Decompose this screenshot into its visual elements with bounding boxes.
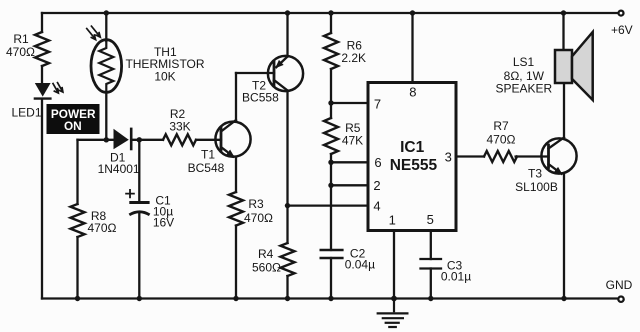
svg-text:SPEAKER: SPEAKER xyxy=(495,81,552,95)
svg-text:33K: 33K xyxy=(169,120,190,134)
svg-text:7: 7 xyxy=(374,97,381,112)
svg-text:3: 3 xyxy=(445,149,452,164)
svg-text:470Ω: 470Ω xyxy=(6,45,35,59)
svg-text:0.01µ: 0.01µ xyxy=(441,270,471,284)
svg-text:R1: R1 xyxy=(13,32,29,46)
svg-text:6: 6 xyxy=(374,155,381,170)
svg-text:NE555: NE555 xyxy=(390,157,438,174)
svg-text:T3: T3 xyxy=(528,167,542,181)
svg-text:BC548: BC548 xyxy=(188,161,225,175)
svg-text:1: 1 xyxy=(389,213,396,228)
svg-text:470Ω: 470Ω xyxy=(88,221,117,235)
svg-text:+6V: +6V xyxy=(611,23,633,37)
svg-text:470Ω: 470Ω xyxy=(244,211,273,225)
svg-text:GND: GND xyxy=(606,278,633,292)
svg-text:1N4001: 1N4001 xyxy=(98,162,140,176)
svg-text:5: 5 xyxy=(427,212,434,227)
svg-text:560Ω: 560Ω xyxy=(252,261,281,275)
svg-text:SL100B: SL100B xyxy=(515,180,558,194)
svg-text:4: 4 xyxy=(373,199,380,214)
svg-text:IC1: IC1 xyxy=(400,139,425,156)
svg-text:LED1: LED1 xyxy=(11,106,41,120)
svg-text:2: 2 xyxy=(373,178,380,193)
svg-text:BC558: BC558 xyxy=(242,91,279,105)
svg-text:0.04µ: 0.04µ xyxy=(345,258,375,272)
svg-text:ON: ON xyxy=(64,119,82,133)
svg-text:47K: 47K xyxy=(342,134,363,148)
svg-text:LS1: LS1 xyxy=(513,55,535,69)
svg-text:2.2K: 2.2K xyxy=(341,51,366,65)
svg-text:10K: 10K xyxy=(154,70,175,84)
svg-text:16V: 16V xyxy=(153,216,174,230)
svg-text:R7: R7 xyxy=(493,119,509,133)
svg-text:R3: R3 xyxy=(248,197,264,211)
svg-text:470Ω: 470Ω xyxy=(487,133,516,147)
svg-text:T1: T1 xyxy=(201,148,215,162)
svg-text:R4: R4 xyxy=(258,247,274,261)
svg-text:8: 8 xyxy=(409,85,416,100)
